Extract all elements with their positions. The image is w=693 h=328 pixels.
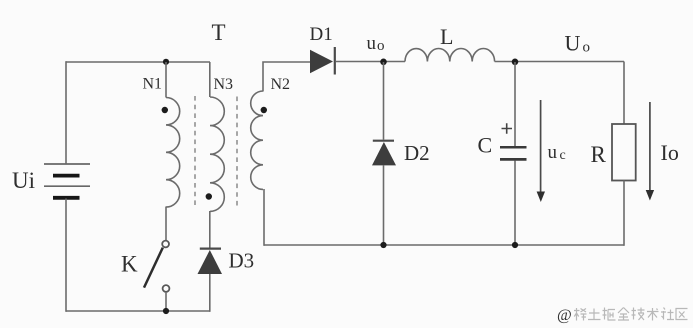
- winding N1 polarity dot: [162, 107, 168, 113]
- diode D2 cathode bar: [373, 140, 394, 142]
- wire: primary top rail: [66, 61, 210, 63]
- transformer core dashed line (left): [194, 96, 196, 207]
- wire: resistor R to bottom rail: [623, 181, 625, 246]
- svg-text:D2: D2: [404, 141, 430, 165]
- svg-text:o: o: [377, 38, 385, 54]
- svg-text:T: T: [212, 20, 226, 45]
- svg-text:U: U: [565, 31, 581, 56]
- winding N3 of transformer T: [210, 97, 224, 211]
- svg-text:R: R: [591, 142, 607, 167]
- wire: D1 cathode to inductor L (through node uo): [336, 61, 405, 63]
- wire: battery - down to bottom rail: [65, 199, 67, 312]
- resistor R: [612, 124, 636, 181]
- svg-text:o: o: [583, 40, 591, 56]
- wire: switch K to bottom rail: [165, 292, 167, 312]
- svg-text:c: c: [560, 148, 566, 163]
- wire: C bottom plate to bottom rail: [514, 161, 516, 246]
- node: junction of D2 with bottom rail: [380, 242, 386, 248]
- wire: inductor L to top right corner: [495, 61, 624, 63]
- svg-text:Io: Io: [661, 140, 679, 165]
- node: junction of switch K with bottom rail: [163, 308, 169, 314]
- svg-text:Ui: Ui: [12, 168, 35, 193]
- wire: N2 bottom lead to secondary bottom rail: [263, 189, 265, 246]
- wire: left vertical from top rail to battery +: [65, 61, 67, 163]
- wire: D2 anode to bottom rail: [383, 165, 385, 245]
- svg-text:C: C: [478, 133, 493, 158]
- diode D2 triangle: [372, 142, 396, 165]
- capacitor C plus sign: [502, 123, 513, 134]
- diode D3 cathode bar: [200, 248, 221, 250]
- wire: N2 top lead up and right to D1: [263, 62, 310, 92]
- svg-text:D3: D3: [229, 249, 255, 273]
- wire: primary bottom rail: [66, 310, 210, 312]
- svg-text:K: K: [121, 252, 138, 277]
- diode D1 triangle: [310, 50, 333, 73]
- wire: secondary bottom rail: [264, 244, 624, 246]
- battery Ui: [44, 164, 90, 198]
- winding N2 of transformer T: [251, 91, 263, 189]
- watermark: [557, 307, 688, 324]
- arrow Io (output current): [646, 102, 654, 201]
- diode D1 cathode bar: [334, 47, 336, 75]
- wire: N1 top lead: [165, 62, 167, 98]
- node: junction of C branch with output rail: [512, 59, 519, 66]
- diode D3 triangle: [198, 250, 223, 274]
- wire: N3 bottom lead to D3: [209, 211, 211, 248]
- svg-text:N3: N3: [214, 76, 234, 93]
- switch K: [144, 241, 169, 292]
- node: junction of C with bottom rail: [512, 242, 518, 248]
- wire: N1 bottom lead to switch K: [165, 207, 167, 241]
- svg-text:N2: N2: [271, 76, 291, 93]
- svg-text:u: u: [548, 142, 558, 163]
- inductor L: [405, 48, 495, 61]
- wire: node uo down to D2: [383, 62, 385, 140]
- arrow uc (capacitor voltage): [537, 100, 545, 202]
- svg-text:D1: D1: [310, 24, 333, 45]
- wire: C branch vertical to top plate: [514, 62, 516, 146]
- wire: D3 anode to bottom rail: [209, 274, 211, 312]
- svg-text:L: L: [440, 24, 453, 49]
- winding N1 of transformer T: [166, 98, 180, 208]
- transformer core dashed line (right): [236, 97, 238, 207]
- svg-text:u: u: [367, 33, 377, 54]
- node uo: [380, 59, 387, 66]
- wire: right vertical down to resistor R: [623, 62, 625, 125]
- capacitor C plates: [500, 147, 527, 159]
- svg-text:@: @: [557, 307, 572, 324]
- svg-text:N1: N1: [143, 76, 163, 93]
- wire: N3 top lead from rail: [209, 62, 211, 97]
- node: junction of N1 top with rail: [163, 59, 169, 65]
- winding N2 polarity dot: [261, 107, 267, 113]
- winding N3 polarity dot: [206, 193, 212, 199]
